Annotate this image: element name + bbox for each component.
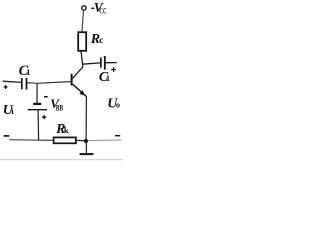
- svg-text:CC: CC: [99, 6, 106, 15]
- svg-text:c: c: [99, 35, 103, 45]
- svg-text:o: o: [116, 101, 120, 110]
- svg-text:BB: BB: [56, 104, 64, 113]
- svg-text:1: 1: [106, 74, 110, 83]
- svg-text:i: i: [11, 106, 14, 116]
- svg-text:1: 1: [26, 67, 30, 77]
- svg-text:k: k: [64, 125, 69, 135]
